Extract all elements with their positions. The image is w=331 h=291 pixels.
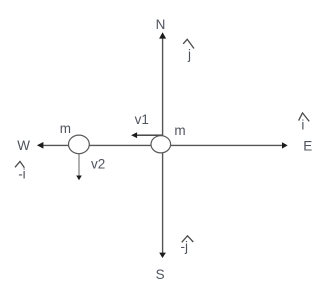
svg-text:m: m: [60, 121, 71, 136]
wire: horizontal W-E axis line: [39, 144, 286, 146]
node: arrowhead West: [37, 142, 44, 149]
svg-text:i: i: [301, 118, 304, 133]
label j-hat caret: [183, 39, 194, 48]
mass m (left circle): [69, 135, 90, 154]
node: arrowhead East: [282, 142, 288, 148]
wire: v2 vector line: [78, 153, 80, 177]
node: arrowhead v2: [76, 176, 82, 181]
wire: v1 vector line: [133, 134, 162, 136]
node: arrowhead North: [159, 32, 166, 38]
svg-text:S: S: [156, 267, 165, 282]
label i-hat caret: [299, 113, 310, 122]
svg-text:-j: -j: [181, 239, 189, 254]
label minus-i-hat caret: [15, 161, 24, 167]
wire: vertical N-S axis line: [162, 34, 164, 257]
svg-text:v1: v1: [135, 112, 149, 127]
node: arrowhead South: [159, 253, 166, 258]
label minus-j-hat caret: [182, 236, 194, 243]
svg-text:N: N: [156, 17, 166, 32]
node: arrowhead v1: [131, 132, 137, 138]
svg-text:W: W: [17, 138, 30, 153]
svg-text:E: E: [303, 138, 312, 153]
svg-text:m: m: [174, 123, 185, 138]
mass m (center circle): [151, 136, 171, 153]
svg-text:j: j: [187, 47, 191, 62]
svg-text:v2: v2: [91, 157, 105, 172]
svg-text:-i: -i: [18, 166, 26, 181]
